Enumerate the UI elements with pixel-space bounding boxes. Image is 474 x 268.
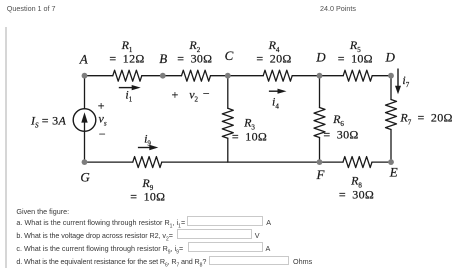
header: points bbox=[320, 4, 356, 13]
svg-text:A: A bbox=[79, 52, 88, 67]
answer box c bbox=[188, 242, 264, 252]
svg-text:i7: i7 bbox=[402, 73, 409, 89]
wire R5 to node D right bbox=[372, 75, 391, 77]
svg-text:+: + bbox=[171, 88, 179, 102]
current arrow i1 bbox=[119, 85, 141, 90]
svg-text:B: B bbox=[159, 51, 167, 66]
svg-text:= 10Ω: = 10Ω bbox=[338, 51, 373, 65]
node C bbox=[225, 73, 231, 79]
wire current source down to G bbox=[84, 131, 86, 162]
answer box d bbox=[209, 256, 289, 266]
svg-text:R6: R6 bbox=[332, 112, 344, 128]
resistor R7 bbox=[386, 100, 397, 130]
left content border bar bbox=[5, 27, 7, 268]
resistor R1 bbox=[113, 70, 142, 81]
svg-text:IS = 3A: IS = 3A bbox=[30, 113, 66, 129]
svg-text:i1: i1 bbox=[125, 87, 132, 103]
node A bbox=[82, 73, 88, 79]
wire left: A down to current source bbox=[84, 76, 86, 109]
resistor R2 bbox=[182, 70, 211, 81]
svg-text:vs: vs bbox=[99, 112, 107, 128]
svg-text:E: E bbox=[389, 165, 398, 180]
current arrow i9 bbox=[138, 145, 158, 150]
current arrow i4 bbox=[269, 89, 287, 94]
svg-text:= 10Ω: = 10Ω bbox=[130, 189, 165, 203]
answer box b bbox=[177, 229, 252, 239]
resistor R8 bbox=[343, 157, 372, 168]
current source IS circle bbox=[73, 109, 96, 132]
svg-text:= 10Ω: = 10Ω bbox=[232, 130, 267, 144]
svg-text:F: F bbox=[316, 167, 326, 182]
wire R2 to R4 through node C bbox=[211, 75, 264, 77]
resistor R6 bbox=[314, 108, 325, 138]
wire R8 to node E bbox=[372, 161, 391, 163]
wire R3 to bottom wire bbox=[227, 138, 229, 162]
svg-text:= 30Ω: = 30Ω bbox=[323, 128, 358, 142]
question d bbox=[16, 257, 206, 268]
svg-text:+: + bbox=[97, 99, 105, 113]
resistor R3 bbox=[222, 108, 233, 138]
node D bbox=[317, 73, 323, 79]
node E bbox=[388, 159, 394, 165]
svg-text:C: C bbox=[225, 48, 234, 63]
svg-text:= 12Ω: = 12Ω bbox=[109, 51, 144, 65]
wire D right down to R7 bbox=[390, 76, 392, 100]
svg-text:R7 = 20Ω: R7 = 20Ω bbox=[399, 111, 452, 127]
current arrow i7 bbox=[395, 69, 401, 95]
wire R9 to node F bbox=[162, 161, 343, 163]
wire C down to R3 bbox=[227, 76, 229, 109]
current source arrow bbox=[81, 112, 87, 131]
svg-text:i9: i9 bbox=[144, 132, 151, 148]
node F bbox=[317, 159, 323, 165]
question intro bbox=[16, 207, 69, 216]
svg-text:i4: i4 bbox=[272, 95, 279, 111]
resistor R9 bbox=[133, 157, 162, 168]
svg-text:= 20Ω: = 20Ω bbox=[256, 51, 291, 65]
wire R6 to node F bbox=[319, 138, 321, 163]
question c bbox=[16, 244, 183, 255]
wire bottom: G to R9 bbox=[85, 161, 133, 163]
wire R7 to node E bbox=[390, 130, 392, 163]
svg-text:G: G bbox=[80, 169, 90, 184]
wire top: A to R1 bbox=[85, 75, 113, 77]
resistor R4 bbox=[263, 70, 292, 81]
question a bbox=[16, 218, 185, 229]
node D right bbox=[388, 73, 394, 79]
svg-text:D: D bbox=[315, 49, 326, 64]
question b bbox=[16, 231, 172, 242]
resistor R5 bbox=[343, 70, 372, 81]
node G bbox=[82, 159, 88, 165]
svg-text:v2: v2 bbox=[189, 88, 198, 104]
answer box a bbox=[187, 216, 264, 226]
wire R4 to R5 through node D bbox=[292, 75, 343, 77]
svg-text:D: D bbox=[385, 50, 396, 65]
node B bbox=[160, 73, 166, 79]
header: question counter bbox=[7, 4, 56, 13]
svg-text:= 30Ω: = 30Ω bbox=[339, 188, 374, 202]
svg-text:= 30Ω: = 30Ω bbox=[177, 51, 212, 65]
svg-text:−: − bbox=[202, 87, 210, 101]
wire D down to R6 bbox=[319, 76, 321, 108]
svg-text:−: − bbox=[98, 127, 106, 141]
wire R1 to R2 through node B bbox=[142, 75, 182, 77]
